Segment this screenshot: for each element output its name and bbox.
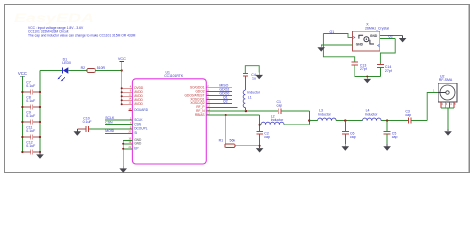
svg-text:Q2: Q2 — [223, 99, 228, 103]
svg-text:GND: GND — [370, 34, 378, 38]
svg-text:RF-SMA: RF-SMA — [439, 78, 453, 82]
svg-text:DGUARD: DGUARD — [134, 108, 149, 112]
svg-text:cap: cap — [392, 135, 398, 139]
svg-text:0.1uF: 0.1uF — [26, 129, 35, 133]
svg-text:R2: R2 — [81, 66, 86, 70]
svg-text:0.1uF: 0.1uF — [83, 120, 92, 124]
svg-text:The cap and inductor value can: The cap and inductor value can change to… — [28, 33, 136, 37]
svg-text:cap: cap — [264, 135, 270, 139]
svg-text:VCC: VCC — [118, 57, 126, 61]
svg-text:EP: EP — [134, 147, 138, 151]
svg-text:R1: R1 — [219, 138, 224, 142]
svg-text:Inductor: Inductor — [247, 91, 260, 95]
svg-text:Inductor: Inductor — [365, 113, 378, 117]
svg-text:Q1: Q1 — [330, 30, 335, 34]
svg-text:RBIAS: RBIAS — [195, 113, 205, 117]
svg-text:cap: cap — [350, 135, 356, 139]
svg-text:Inductor: Inductor — [271, 118, 284, 122]
svg-text:AVDD: AVDD — [134, 102, 143, 106]
svg-text:Q2: Q2 — [388, 34, 393, 38]
svg-text:0.1uF: 0.1uF — [26, 99, 35, 103]
svg-text:510R: 510R — [97, 66, 106, 70]
svg-text:0.1uF: 0.1uF — [26, 144, 35, 148]
svg-text:26MHz_Crystal: 26MHz_Crystal — [365, 27, 389, 31]
svg-text:56k: 56k — [230, 138, 236, 142]
svg-text:MOSI: MOSI — [105, 129, 114, 133]
svg-text:cap: cap — [405, 113, 411, 117]
svg-text:GND: GND — [134, 142, 142, 146]
svg-text:1u: 1u — [252, 77, 256, 81]
svg-text:CC1101RTK: CC1101RTK — [164, 74, 184, 78]
svg-text:SCLK: SCLK — [105, 116, 115, 120]
svg-text:SI: SI — [134, 131, 137, 135]
svg-text:Inductor: Inductor — [318, 113, 331, 117]
svg-text:27pf: 27pf — [385, 69, 392, 73]
svg-text:27pf: 27pf — [360, 67, 367, 71]
svg-text:SCLK: SCLK — [134, 118, 143, 122]
svg-text:0.1uF: 0.1uF — [26, 84, 35, 88]
svg-text:L1: L1 — [248, 96, 252, 100]
svg-text:LED0: LED0 — [62, 61, 71, 65]
svg-text:GND: GND — [356, 42, 364, 46]
svg-text:VCC: VCC — [18, 71, 27, 76]
svg-text:0.1uF: 0.1uF — [26, 114, 35, 118]
svg-text:cap: cap — [277, 103, 283, 107]
svg-text:EasyEDA: EasyEDA — [14, 11, 94, 25]
svg-text:CSN: CSN — [105, 120, 113, 124]
